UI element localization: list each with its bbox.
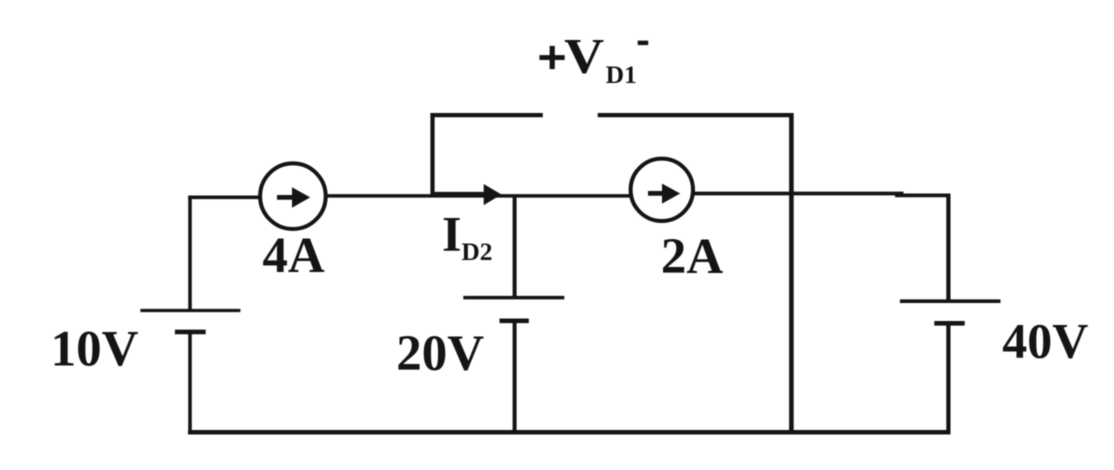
current source I1 4A: circle bbox=[260, 163, 326, 229]
svg-text:10V: 10V bbox=[51, 321, 139, 377]
wire: main horizontal, left stub from left branch to 4A source bbox=[188, 196, 259, 200]
battery V1 10V: long (positive) plate bbox=[140, 309, 240, 312]
current source I1 4A: arrow shaft bbox=[277, 195, 295, 200]
wire: diode D1 branch, top-left horizontal to D1 anode bbox=[430, 113, 542, 117]
battery V3 40V: short (negative) plate bbox=[934, 321, 964, 326]
current source I2 2A: arrow head bbox=[662, 184, 680, 204]
svg-text:2A: 2A bbox=[661, 229, 724, 285]
wire: right branch vertical upper (corner to 40V battery top plate) bbox=[946, 194, 950, 303]
svg-text:D1: D1 bbox=[606, 60, 637, 89]
current I_D2 arrow: head bbox=[484, 184, 502, 205]
wire: middle branch vertical lower (20V short plate to bottom wire) bbox=[513, 321, 517, 434]
wire: diode D1 branch, right drop through main wire to bottom wire bbox=[789, 113, 794, 434]
wire: left branch vertical lower (10V battery short plate to bottom wire) bbox=[188, 332, 192, 434]
label: minus superscript of V_D1 bbox=[638, 41, 649, 46]
svg-text:20V: 20V bbox=[396, 326, 484, 382]
current source I2 2A: circle bbox=[631, 159, 693, 221]
wire: diode D1 branch, left riser from node A bbox=[430, 113, 434, 197]
label: plus sign of diode voltage +V_D1 bbox=[539, 55, 564, 60]
wire: main horizontal, 4A source to 2A source (through node A and I_D2 arrow) bbox=[326, 194, 631, 198]
current I_D2 arrow: shaft on main wire bbox=[433, 192, 486, 197]
wire: main horizontal, right step segment to top-right corner bbox=[895, 193, 950, 197]
battery V1 10V: short (negative) plate bbox=[175, 330, 206, 335]
svg-text:4A: 4A bbox=[262, 228, 325, 284]
wire: bottom return wire bbox=[188, 430, 951, 435]
battery V2 20V: short (negative) plate bbox=[500, 318, 529, 323]
wire: main horizontal, 2A source to right step bbox=[694, 192, 904, 196]
wire: middle branch vertical upper (node B to 20V battery top plate) bbox=[513, 196, 517, 299]
current source I2 2A: arrow shaft bbox=[648, 191, 665, 196]
svg-text:40V: 40V bbox=[1002, 313, 1088, 369]
wire: diode D1 branch, top-right horizontal from D1 cathode bbox=[598, 113, 794, 117]
battery V3 40V: long (positive) plate bbox=[900, 299, 1001, 303]
svg-text:V: V bbox=[564, 28, 604, 84]
wire: right branch vertical lower (40V short plate to bottom wire) bbox=[946, 323, 950, 433]
wire: left branch vertical upper (corner to 10V battery top plate) bbox=[188, 196, 192, 312]
battery V2 20V: long (positive) plate bbox=[463, 296, 564, 300]
current source I1 4A: arrow head bbox=[292, 187, 310, 208]
svg-text:I: I bbox=[442, 206, 461, 262]
svg-text:D2: D2 bbox=[461, 237, 492, 266]
